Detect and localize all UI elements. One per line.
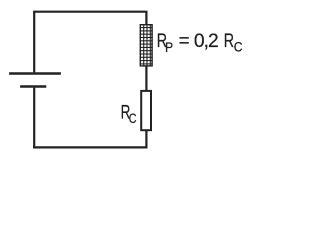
battery B1: long plate (top) bbox=[9, 72, 61, 74]
svg-text:=: = bbox=[179, 31, 190, 52]
svg-text:0,2: 0,2 bbox=[194, 31, 218, 52]
label RC bbox=[121, 101, 137, 127]
wire: right vertical upper (top wire to RP) bbox=[145, 12, 147, 25]
grid horizontal lines bbox=[140, 27, 153, 29]
svg-text:C: C bbox=[129, 111, 137, 126]
wire: top horizontal bbox=[33, 11, 147, 13]
svg-text:P: P bbox=[165, 39, 173, 55]
resistor RP (hatched box) bbox=[140, 25, 153, 66]
wire: bottom horizontal bbox=[33, 146, 147, 148]
svg-text:R: R bbox=[224, 30, 234, 52]
wire: right vertical middle (RP to RC) bbox=[145, 66, 147, 91]
grid vertical lines bbox=[143, 25, 145, 66]
wire: left vertical lower (battery to bottom wire) bbox=[33, 88, 35, 149]
battery B1: short plate (bottom) bbox=[20, 85, 46, 87]
svg-text:C: C bbox=[234, 39, 243, 55]
wire: right vertical lower (RC to bottom wire) bbox=[145, 131, 147, 149]
wire: left vertical upper (top wire to battery) bbox=[33, 12, 35, 73]
label RP value: "RP = 0,2 RC" bbox=[157, 30, 243, 55]
resistor RC (empty box) bbox=[141, 91, 151, 130]
